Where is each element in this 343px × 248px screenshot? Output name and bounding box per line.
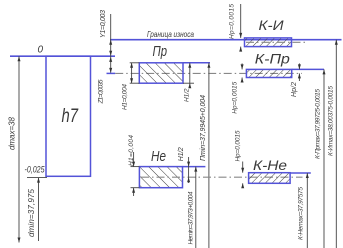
Pr / K-Pr centerline	[115, 72, 302, 74]
svg-text:Hp=0,0015: Hp=0,0015	[234, 130, 241, 161]
K-Nemax dimension line	[306, 173, 308, 248]
svg-text:К-Прmax=37,99725-0,0015: К-Прmax=37,99725-0,0015	[314, 89, 321, 159]
Ne / K-Ne centerline	[141, 176, 303, 178]
K-Ne tolerance zone box	[249, 173, 291, 184]
zero line (dmax level)	[10, 55, 115, 57]
svg-text:Hp/2: Hp/2	[291, 82, 298, 97]
K-Pr tolerance zone box	[246, 69, 291, 77]
svg-text:Пmin=37,9945+0,004: Пmin=37,9945+0,004	[200, 95, 207, 161]
svg-text:К-Не: К-Не	[253, 157, 287, 173]
svg-text:Hp=0,0015: Hp=0,0015	[232, 81, 239, 113]
Hp dimension (K-Pr)	[241, 63, 243, 69]
blue tick at Pr center level	[107, 72, 116, 74]
svg-text:Hp=0,0015: Hp=0,0015	[229, 4, 236, 39]
svg-text:dmin=37,975: dmin=37,975	[27, 188, 36, 237]
H1/2 dimension (Ne)	[188, 157, 190, 183]
Hp/2 dimension (K-Pr)	[298, 63, 300, 69]
svg-text:0: 0	[38, 45, 44, 56]
dmin dimension line	[38, 178, 40, 241]
H1 dimension (Ne)	[133, 152, 135, 167]
Pmin dimension line	[208, 63, 210, 248]
svg-text:dmax=38: dmax=38	[8, 116, 17, 150]
Pr top edge right extension	[183, 62, 210, 64]
Ne tolerance zone box	[139, 167, 182, 188]
Ne left extension lines	[131, 166, 140, 168]
Pr left extension lines	[130, 62, 140, 64]
K-I tolerance zone box	[245, 38, 292, 47]
dmin extension line	[27, 177, 47, 179]
K-Ne top edge right extension	[290, 172, 311, 174]
dmax dimension line	[18, 56, 20, 242]
K-I centerline	[246, 41, 306, 43]
Pr bottom edge right extension	[183, 82, 194, 84]
svg-text:Z1=0,0035: Z1=0,0035	[97, 79, 104, 104]
svg-text:h7: h7	[62, 106, 80, 127]
K-Prmax dimension line	[323, 69, 325, 248]
svg-text:H1=0,004: H1=0,004	[128, 135, 135, 166]
svg-text:К-И: К-И	[259, 17, 285, 33]
svg-text:К-Неmax=37,97575: К-Неmax=37,97575	[298, 187, 305, 240]
svg-text:Y1=0,003: Y1=0,003	[100, 10, 107, 38]
Nemin dimension line	[195, 167, 197, 248]
Pr tolerance zone box	[139, 63, 183, 83]
svg-text:Граница износа: Граница износа	[147, 30, 194, 39]
Ne top edge right extension	[183, 166, 206, 168]
K-Imax dimension line	[335, 40, 337, 248]
svg-text:К-Иmax=38,00375-0,0015: К-Иmax=38,00375-0,0015	[327, 86, 334, 156]
svg-text:Неmin=37,973+0,004: Неmin=37,973+0,004	[187, 191, 194, 244]
svg-text:H1=0,004: H1=0,004	[122, 84, 129, 110]
svg-text:-0,025: -0,025	[25, 165, 46, 175]
svg-text:H1/2: H1/2	[178, 147, 185, 161]
svg-text:Пр: Пр	[153, 43, 168, 60]
svg-text:Не: Не	[151, 148, 166, 165]
Y1/Z1 dimension line	[110, 14, 112, 73]
Hp dimension (K-I)	[240, 4, 242, 38]
wear boundary line	[110, 39, 342, 41]
H1/2 dimension (Pr)	[189, 63, 191, 88]
H1 dimension (Pr)	[131, 63, 133, 83]
h7 tolerance zone box	[46, 56, 91, 176]
svg-text:К-Пр: К-Пр	[255, 50, 290, 66]
Hp dimension (K-Ne)	[242, 162, 244, 173]
svg-text:H1/2: H1/2	[184, 88, 191, 102]
K-Pr top edge right extension	[292, 68, 324, 70]
